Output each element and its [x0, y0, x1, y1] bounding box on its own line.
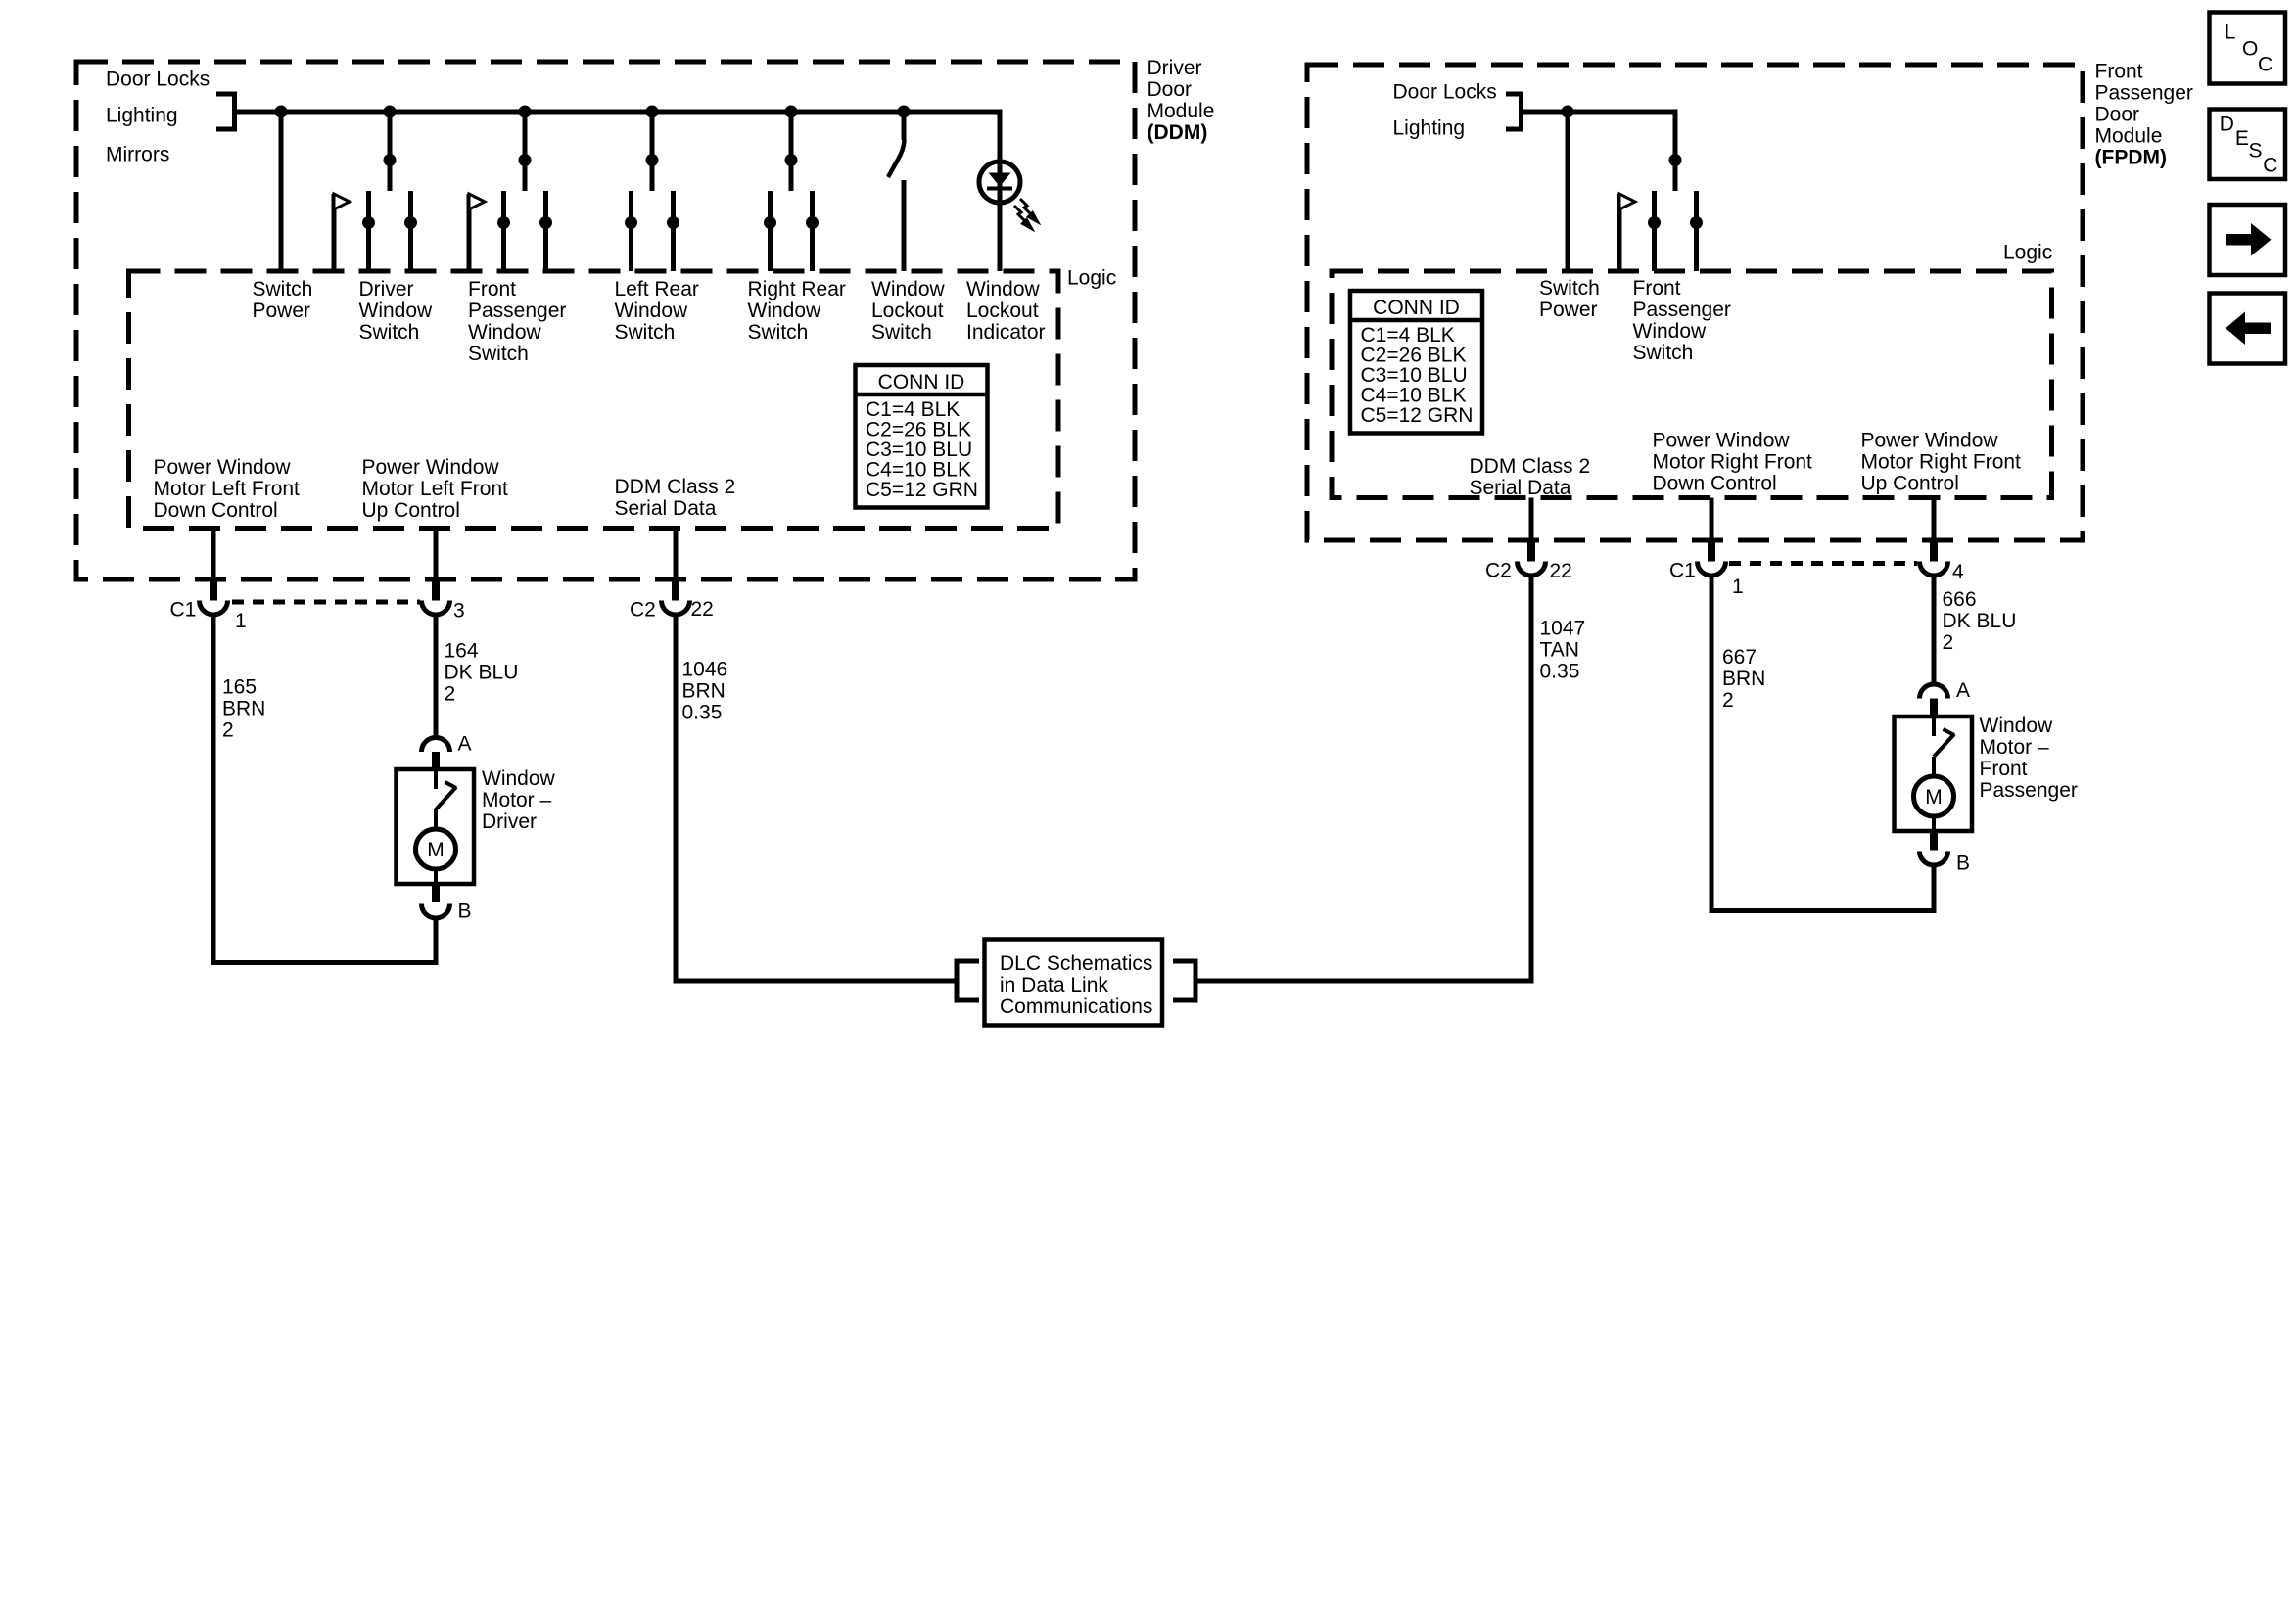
svg-text:Switch: Switch	[1539, 277, 1600, 300]
wire pin C1-1 drop FPDM	[1710, 498, 1714, 544]
connector terminal	[200, 601, 228, 616]
switch contact left	[501, 191, 506, 271]
svg-text:Lockout: Lockout	[966, 300, 1039, 322]
svg-text:Passenger: Passenger	[2095, 81, 2193, 104]
svg-text:Module: Module	[1148, 100, 1215, 122]
bracket door locks/lighting	[216, 92, 235, 97]
svg-text:Down Control: Down Control	[1653, 473, 1777, 495]
switch window lockout	[898, 106, 911, 118]
svg-text:S: S	[2249, 140, 2263, 162]
wire 666 DK BLU	[1932, 574, 1937, 685]
junction dot	[519, 154, 532, 166]
table CONN ID DDM	[856, 365, 988, 508]
wire motor B down	[434, 916, 439, 965]
svg-text:M: M	[1925, 786, 1943, 808]
svg-text:M: M	[427, 839, 445, 861]
bracket door locks/lighting FPDM	[1506, 92, 1522, 97]
svg-text:1: 1	[235, 610, 247, 632]
svg-text:C1: C1	[170, 599, 197, 622]
logic box DDM	[129, 271, 1059, 529]
switch contact right	[671, 191, 676, 271]
svg-text:Window: Window	[871, 278, 946, 300]
svg-text:Switch: Switch	[253, 278, 313, 300]
svg-text:(DDM): (DDM)	[1148, 121, 1208, 144]
svg-text:C1: C1	[1669, 560, 1696, 582]
svg-text:Window: Window	[482, 767, 556, 790]
svg-text:Motor Left Front: Motor Left Front	[154, 478, 301, 500]
svg-text:22: 22	[1550, 560, 1572, 582]
svg-text:Window: Window	[615, 300, 689, 322]
switch contact left	[629, 191, 633, 271]
svg-text:Front: Front	[1980, 758, 2028, 780]
svg-text:E: E	[2235, 127, 2249, 150]
icon box arrow right	[2210, 205, 2286, 275]
svg-text:Driver: Driver	[482, 810, 537, 833]
svg-text:4: 4	[1952, 561, 1964, 583]
box DLC Schematics	[985, 940, 1163, 1026]
svg-text:D: D	[2220, 113, 2234, 135]
LED window lockout indicator	[998, 112, 1003, 271]
svg-text:Window: Window	[1980, 715, 2054, 737]
svg-text:Lighting: Lighting	[1393, 117, 1466, 140]
module box FPDM (Front Passenger Door Module)	[1307, 65, 2083, 540]
detent flag	[332, 194, 337, 271]
wire pin C2-22 drop	[674, 529, 679, 583]
svg-text:Front: Front	[2095, 60, 2143, 82]
svg-text:Power: Power	[253, 300, 311, 322]
svg-text:BRN: BRN	[682, 680, 726, 703]
connector terminal	[422, 601, 450, 616]
svg-text:Door Locks: Door Locks	[1393, 80, 1497, 103]
svg-text:Door: Door	[1148, 78, 1193, 101]
junction dot	[384, 154, 397, 166]
switch contact right	[1694, 191, 1699, 271]
icon box arrow left	[2210, 294, 2286, 364]
svg-text:Communications: Communications	[1000, 995, 1152, 1018]
node bus junction switch power FPDM	[1562, 106, 1574, 118]
switch right rear window	[785, 106, 798, 118]
wire DLC to FPDM serial data	[1195, 979, 1534, 984]
svg-text:3: 3	[453, 600, 465, 623]
svg-text:Up Control: Up Control	[362, 499, 460, 522]
motor circle M	[416, 829, 456, 869]
off-page bracket left	[955, 959, 960, 1003]
svg-text:Driver: Driver	[359, 278, 414, 300]
svg-text:Down Control: Down Control	[154, 499, 278, 522]
connector A driver motor	[422, 738, 450, 753]
svg-text:CONN ID: CONN ID	[1373, 297, 1460, 319]
jumper dashed C1-1 to 3	[232, 600, 420, 605]
svg-text:Serial Data: Serial Data	[615, 497, 717, 520]
svg-text:Switch: Switch	[468, 343, 529, 365]
LED light arrows	[1014, 199, 1038, 229]
switch contact right	[810, 191, 815, 271]
connector stub	[432, 581, 440, 601]
connector stub	[1527, 542, 1535, 562]
svg-text:DDM Class 2: DDM Class 2	[615, 476, 736, 498]
svg-text:2: 2	[1722, 689, 1734, 712]
svg-text:1: 1	[1732, 576, 1744, 598]
svg-text:B: B	[1956, 853, 1970, 875]
wire bottom loop passenger	[1710, 908, 1937, 913]
svg-text:in Data Link: in Data Link	[1000, 974, 1108, 996]
svg-text:0.35: 0.35	[682, 702, 723, 724]
wire switch power bus	[232, 110, 1003, 115]
connector terminal	[1518, 562, 1546, 577]
svg-text:Lockout: Lockout	[871, 300, 944, 322]
wire 165 BRN	[211, 613, 216, 965]
svg-text:CONN ID: CONN ID	[878, 371, 965, 393]
svg-text:Switch: Switch	[871, 321, 932, 344]
svg-text:Window: Window	[966, 278, 1041, 300]
svg-text:164: 164	[445, 640, 479, 663]
wire pin 3 drop	[434, 529, 439, 583]
svg-text:Right Rear: Right Rear	[748, 278, 846, 300]
svg-text:C: C	[2263, 154, 2277, 176]
wire switch feed	[388, 112, 393, 191]
svg-text:Window: Window	[468, 321, 542, 344]
connector B driver motor	[432, 886, 440, 902]
svg-text:1047: 1047	[1540, 618, 1586, 640]
svg-text:A: A	[1956, 679, 1970, 702]
connector terminal	[662, 601, 690, 616]
svg-text:Logic: Logic	[2003, 242, 2052, 264]
motor breaker blade	[434, 769, 438, 789]
wire pin C1-1 drop	[211, 529, 216, 583]
junction dot	[646, 154, 659, 166]
svg-text:Motor Left Front: Motor Left Front	[362, 478, 509, 500]
svg-text:Module: Module	[2095, 124, 2163, 147]
svg-text:DK BLU: DK BLU	[445, 662, 519, 684]
svg-text:Indicator: Indicator	[966, 321, 1046, 344]
switch contact left	[1652, 191, 1657, 271]
junction dot	[1669, 154, 1682, 166]
svg-text:22: 22	[691, 598, 714, 621]
connector stub	[1930, 542, 1938, 562]
icon box DESC	[2210, 110, 2286, 180]
svg-text:Motor Right Front: Motor Right Front	[1653, 451, 1813, 474]
svg-text:Passenger: Passenger	[1980, 779, 2078, 802]
junction dot	[785, 154, 798, 166]
wire motor to case bottom	[1932, 816, 1936, 831]
node bus junction switch power	[275, 106, 288, 118]
svg-text:Switch: Switch	[359, 321, 420, 344]
svg-text:Motor –: Motor –	[482, 789, 552, 811]
off-page bracket right	[1194, 959, 1198, 1003]
svg-text:Door Locks: Door Locks	[106, 69, 210, 91]
svg-text:2: 2	[445, 683, 456, 706]
svg-text:Window: Window	[1633, 320, 1708, 343]
wire switch power bus FPDM	[1519, 110, 1678, 115]
svg-text:0.35: 0.35	[1540, 661, 1580, 683]
connector stub	[672, 581, 679, 601]
connector B passenger motor	[1930, 833, 1938, 851]
svg-text:Power Window: Power Window	[154, 456, 292, 479]
icon box LOC	[2210, 13, 2286, 84]
svg-text:1046: 1046	[682, 659, 728, 681]
connector terminal	[1698, 562, 1726, 577]
svg-text:DDM Class 2: DDM Class 2	[1470, 455, 1591, 478]
svg-text:2: 2	[1943, 631, 1954, 654]
jumper dashed C1-1 to 4 FPDM	[1729, 561, 1917, 566]
svg-text:Passenger: Passenger	[468, 300, 566, 322]
motor breaker blade	[1932, 716, 1936, 736]
switch contact right	[543, 191, 548, 271]
svg-text:Motor Right Front: Motor Right Front	[1861, 451, 2022, 474]
wire switch feed	[523, 112, 528, 191]
connector terminal	[1920, 562, 1948, 577]
svg-text:Mirrors: Mirrors	[106, 144, 169, 166]
svg-text:BRN: BRN	[222, 698, 265, 720]
window motor case	[1895, 716, 1973, 831]
connector stub	[210, 581, 217, 601]
detent flag	[467, 194, 472, 271]
wire switch power drop FPDM	[1566, 112, 1570, 271]
detent flag	[1617, 194, 1622, 271]
svg-text:Power Window: Power Window	[1861, 430, 1999, 452]
window motor case	[397, 769, 475, 884]
wire switch power drop	[279, 112, 284, 271]
switch contact left	[366, 191, 371, 271]
svg-text:C: C	[2258, 54, 2273, 76]
wire switch feed	[789, 112, 794, 191]
logic box FPDM	[1332, 271, 2052, 498]
wire 1047 TAN	[1529, 574, 1534, 984]
wire 667 BRN	[1710, 574, 1714, 913]
svg-text:(FPDM): (FPDM)	[2095, 146, 2167, 168]
svg-text:A: A	[458, 733, 472, 756]
svg-text:Door: Door	[2095, 103, 2140, 125]
svg-text:Window: Window	[748, 300, 822, 322]
switch left rear window	[646, 106, 659, 118]
connector stub	[1708, 542, 1715, 562]
svg-text:Lighting: Lighting	[106, 105, 178, 127]
svg-text:Power: Power	[1539, 299, 1598, 321]
svg-text:O: O	[2242, 38, 2258, 61]
wire pin C2-22 drop FPDM	[1529, 498, 1534, 544]
svg-text:L: L	[2225, 21, 2236, 43]
svg-text:Switch: Switch	[615, 321, 676, 344]
wire motor to case bottom	[434, 869, 438, 884]
wire 1046 BRN	[674, 613, 679, 984]
switch front passenger window	[519, 106, 532, 118]
wire bottom loop driver	[211, 960, 439, 965]
svg-text:165: 165	[222, 676, 257, 699]
svg-text:DK BLU: DK BLU	[1943, 610, 2017, 632]
svg-text:Window: Window	[359, 300, 434, 322]
svg-text:Power Window: Power Window	[362, 456, 500, 479]
switch driver window	[384, 106, 397, 118]
svg-text:667: 667	[1722, 646, 1757, 669]
svg-text:DLC Schematics: DLC Schematics	[1000, 952, 1152, 975]
svg-text:C5=12 GRN: C5=12 GRN	[866, 479, 978, 501]
svg-text:Driver: Driver	[1148, 57, 1202, 79]
svg-text:Switch: Switch	[1633, 342, 1694, 364]
connector A passenger motor	[1920, 684, 1948, 699]
wire 1046 horizontal to DLC	[676, 979, 957, 984]
svg-text:TAN: TAN	[1540, 639, 1579, 662]
svg-text:Switch: Switch	[748, 321, 809, 344]
svg-text:C2: C2	[1485, 560, 1512, 582]
svg-text:Logic: Logic	[1067, 267, 1116, 290]
motor circle M	[1914, 776, 1954, 816]
svg-text:Left Rear: Left Rear	[615, 278, 699, 300]
svg-text:Front: Front	[1633, 277, 1681, 300]
svg-text:Passenger: Passenger	[1633, 299, 1731, 321]
wire switch feed	[1673, 112, 1678, 191]
wire motor B down FPDM	[1932, 864, 1937, 914]
svg-text:Serial Data: Serial Data	[1470, 477, 1571, 499]
svg-text:BRN: BRN	[1722, 668, 1765, 690]
svg-text:B: B	[458, 901, 472, 923]
svg-text:666: 666	[1943, 588, 1977, 611]
svg-text:C2: C2	[630, 599, 656, 622]
svg-text:Front: Front	[468, 278, 516, 300]
wire switch feed	[650, 112, 655, 191]
table CONN ID FPDM	[1350, 291, 1482, 434]
svg-text:Motor –: Motor –	[1980, 736, 2050, 759]
svg-text:Power Window: Power Window	[1653, 430, 1791, 452]
module box DDM (Driver Door Module)	[76, 62, 1135, 579]
svg-text:C5=12 GRN: C5=12 GRN	[1361, 404, 1474, 427]
switch contact left	[768, 191, 773, 271]
svg-text:Up Control: Up Control	[1861, 473, 1959, 495]
wire 164 DK BLU	[434, 613, 439, 738]
svg-text:2: 2	[222, 719, 234, 742]
wire pin 4 drop FPDM	[1932, 498, 1937, 544]
switch contact right	[408, 191, 413, 271]
